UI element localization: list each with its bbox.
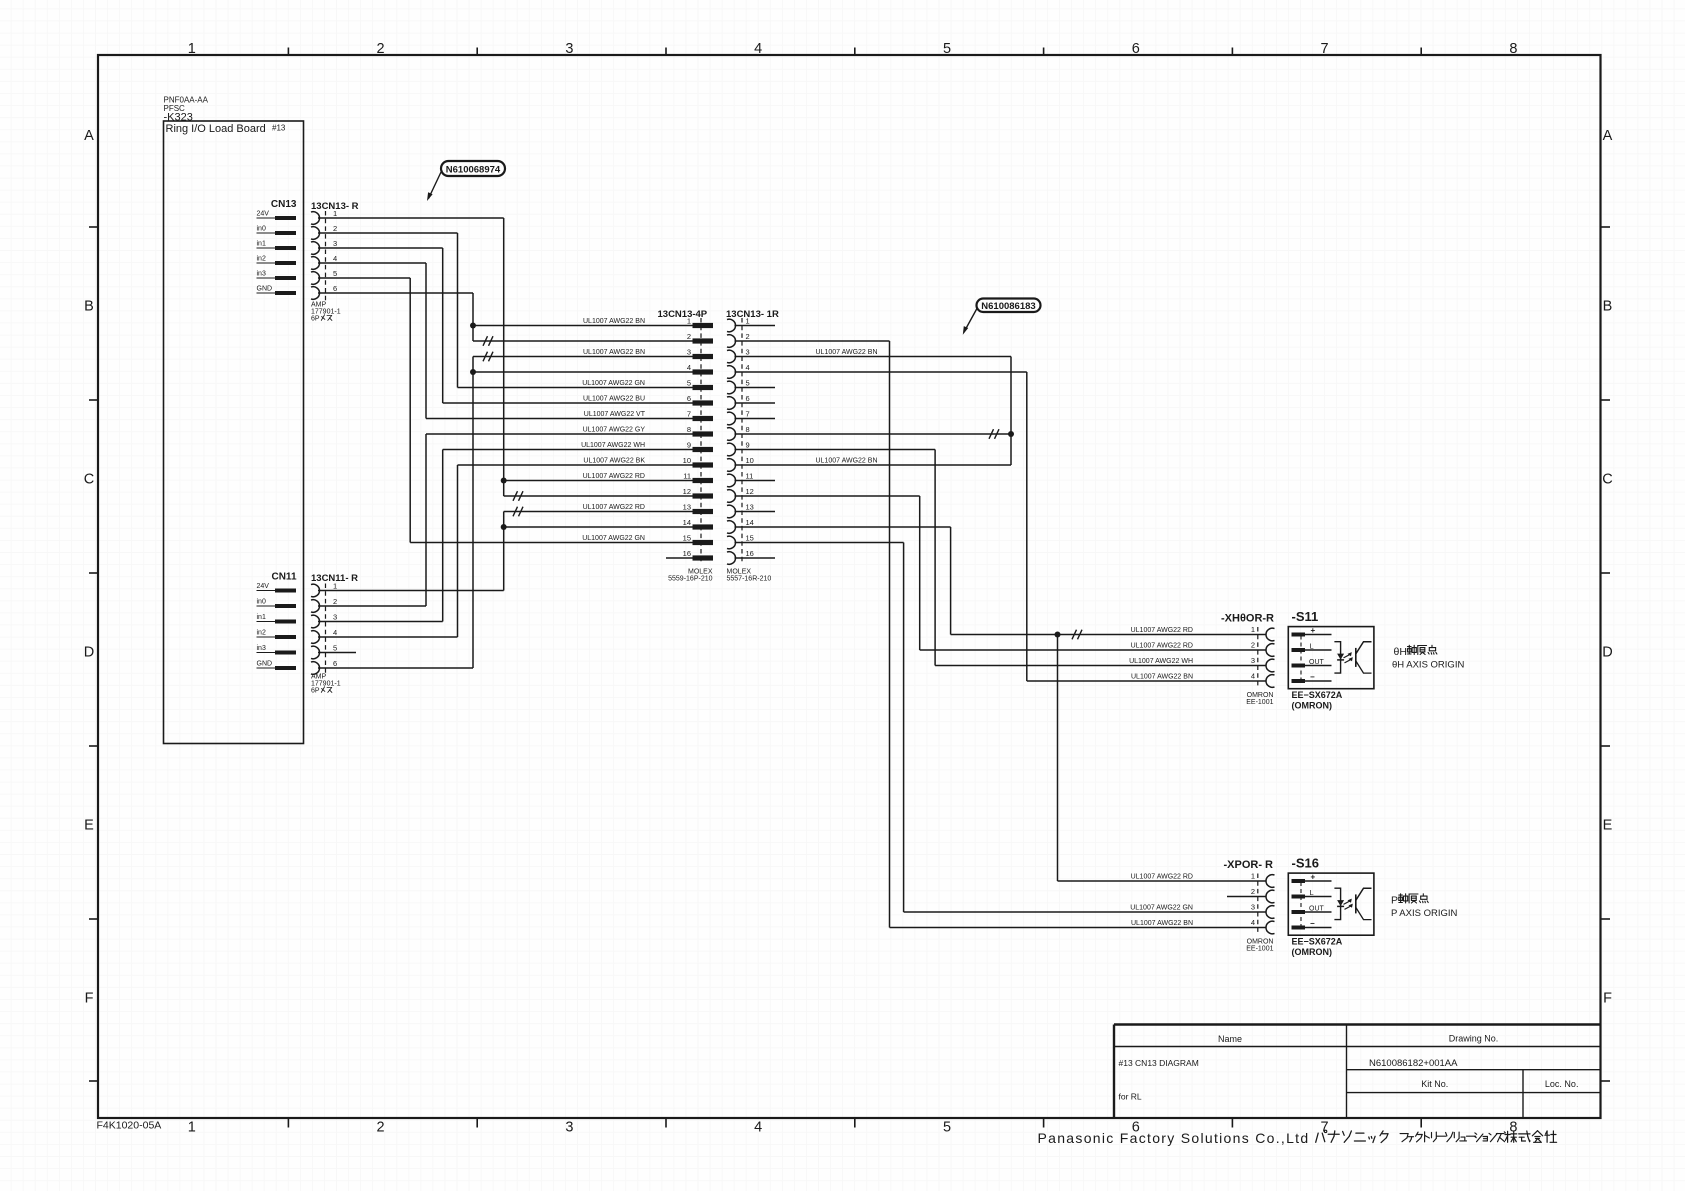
frame row tick marks right bbox=[1601, 227, 1611, 1081]
svg-text:5: 5 bbox=[943, 41, 951, 57]
svg-text:F: F bbox=[85, 991, 94, 1007]
svg-text:GND: GND bbox=[257, 661, 273, 668]
svg-text:24V: 24V bbox=[257, 583, 270, 590]
LED bracket of -S16 bbox=[1334, 888, 1340, 919]
svg-text:13: 13 bbox=[746, 503, 754, 512]
svg-text:(OMRON): (OMRON) bbox=[1292, 947, 1333, 957]
svg-text:in0: in0 bbox=[257, 599, 266, 606]
wire vertical CN13 24V net bbox=[503, 218, 505, 496]
wire vertical 1R p9 to S11 OUT bbox=[934, 450, 936, 666]
svg-text:in2: in2 bbox=[257, 256, 266, 263]
svg-text:1: 1 bbox=[1251, 872, 1255, 881]
wire feed to 13CN13-4P pin 11 bbox=[504, 480, 693, 482]
pin 12 socket of 13CN13-1R bbox=[727, 490, 736, 503]
wire 13CN13-1R pin 6 lead bbox=[735, 402, 776, 404]
svg-text:6: 6 bbox=[333, 659, 337, 668]
svg-text:UL1007 AWG22 RD: UL1007 AWG22 RD bbox=[583, 473, 645, 480]
pin 14 socket of 13CN13-1R bbox=[727, 521, 736, 534]
svg-text:12: 12 bbox=[746, 487, 754, 496]
svg-text:5: 5 bbox=[943, 1120, 951, 1136]
svg-text:θH: θH bbox=[1394, 646, 1407, 658]
svg-text:10: 10 bbox=[746, 456, 754, 465]
connector 13CN11-R body dashed line bbox=[325, 584, 327, 676]
wire 13CN11-R p5 stub bbox=[318, 652, 356, 654]
connector 13CN13-4P body dashed line bbox=[700, 318, 702, 562]
svg-text:UL1007 AWG22 GN: UL1007 AWG22 GN bbox=[1130, 905, 1193, 912]
svg-text:EE-1001: EE-1001 bbox=[1246, 946, 1273, 953]
wire feed to 13CN13-4P pin 6 bbox=[443, 402, 693, 404]
svg-text:1: 1 bbox=[746, 317, 750, 326]
part number balloon N610068974 bbox=[441, 161, 505, 176]
svg-text:6: 6 bbox=[1132, 41, 1140, 57]
svg-text:7: 7 bbox=[1321, 41, 1329, 57]
wire feed to 13CN13-4P pin 13 bbox=[504, 511, 693, 513]
svg-text:7: 7 bbox=[746, 410, 750, 419]
connector 13CN13-1R body dashed line bbox=[741, 318, 743, 562]
pin 4 socket of 13CN13-1R bbox=[727, 366, 736, 379]
wire 13CN11-R p3 horizontal bbox=[318, 621, 443, 623]
wire vertical CN13 p3 net bbox=[442, 248, 444, 403]
svg-text:N610086182+001AA: N610086182+001AA bbox=[1369, 1058, 1458, 1069]
svg-text:14: 14 bbox=[746, 518, 754, 527]
svg-text:OUT: OUT bbox=[1309, 906, 1325, 913]
svg-text:6P: 6P bbox=[311, 316, 320, 323]
part number balloon N610086183 bbox=[977, 299, 1041, 313]
pin 1 socket of 13CN13-R bbox=[311, 212, 320, 225]
svg-text:9: 9 bbox=[687, 441, 691, 450]
wire 13CN13-1R pin 8 lead bbox=[735, 433, 1012, 435]
svg-text:6P: 6P bbox=[311, 688, 320, 695]
pin 3 bar inside -S16 bbox=[1292, 910, 1306, 914]
wire 13CN13-1R pin 4 lead bbox=[735, 371, 1027, 373]
grid row letters left bbox=[84, 128, 94, 1007]
wire feed to 13CN13-4P pin 1 bbox=[473, 325, 693, 327]
svg-text:5: 5 bbox=[333, 644, 337, 653]
svg-text:8: 8 bbox=[746, 425, 750, 434]
wire 13CN13-1R pin 9 lead bbox=[735, 449, 936, 451]
svg-text:5: 5 bbox=[687, 379, 691, 388]
dashed line inside -S16 bbox=[1300, 882, 1302, 929]
svg-text:B: B bbox=[1603, 299, 1613, 315]
wire 13CN13-1R pin 14 lead bbox=[735, 526, 951, 528]
svg-text:-XPOR- R: -XPOR- R bbox=[1224, 859, 1274, 871]
wire 13CN11-R p6 GND horizontal bbox=[318, 667, 473, 669]
svg-text:4: 4 bbox=[333, 254, 337, 263]
wire vertical CN13 p4 net bbox=[425, 263, 427, 419]
svg-text:11: 11 bbox=[683, 472, 691, 481]
svg-text:4: 4 bbox=[1251, 918, 1255, 927]
wire feed to 13CN13-4P pin 2 bbox=[473, 340, 693, 342]
svg-text:24V: 24V bbox=[257, 211, 270, 218]
wire 13CN11-R p4 horizontal bbox=[318, 636, 458, 638]
junction GND to 4P p1 bbox=[470, 323, 476, 329]
svg-text:6: 6 bbox=[687, 394, 691, 403]
wire 13CN13-1R pin 7 lead bbox=[735, 418, 776, 420]
svg-text:1: 1 bbox=[333, 209, 337, 218]
dashed line inside -S11 bbox=[1300, 636, 1302, 683]
title block table bbox=[1114, 1025, 1601, 1119]
wire 13CN13-1R pin 13 lead bbox=[735, 511, 776, 513]
pin 2 bar inside -S16 bbox=[1292, 895, 1306, 899]
svg-text:UL1007 AWG22 RD: UL1007 AWG22 RD bbox=[583, 504, 645, 511]
svg-text:Ring I/O Load Board: Ring I/O Load Board bbox=[166, 123, 266, 135]
wire S16 connector pin4 minus bbox=[890, 927, 1267, 929]
pin 6 socket of 13CN11-R bbox=[311, 662, 320, 675]
twist mark on 4P p12 wire bbox=[513, 491, 523, 501]
svg-text:16: 16 bbox=[746, 549, 754, 558]
svg-text:C: C bbox=[84, 472, 94, 488]
connector -XHθOR-R dashed line bbox=[1257, 627, 1259, 687]
svg-text:UL1007 AWG22 BN: UL1007 AWG22 BN bbox=[583, 349, 645, 356]
svg-text:in2: in2 bbox=[257, 630, 266, 637]
wire feed to 13CN13-4P pin 15 bbox=[410, 542, 692, 544]
wire feed to 13CN13-4P pin 10 bbox=[458, 464, 693, 466]
LED diode of -S16 bbox=[1337, 900, 1344, 906]
frame row tick marks left bbox=[89, 227, 98, 1081]
light arrows of -S16 bbox=[1344, 900, 1353, 909]
svg-text:E: E bbox=[84, 818, 94, 834]
svg-text:N610068974: N610068974 bbox=[446, 165, 501, 176]
wire 13CN13-R p4 horizontal bbox=[318, 262, 426, 264]
svg-text:3: 3 bbox=[746, 348, 750, 357]
LED bracket of -S11 bbox=[1334, 642, 1340, 673]
wire S11 connector pin4 minus bbox=[1027, 680, 1266, 682]
svg-text:UL1007 AWG22 BN: UL1007 AWG22 BN bbox=[816, 349, 878, 356]
svg-text:N610086183: N610086183 bbox=[981, 301, 1035, 312]
svg-text:16: 16 bbox=[683, 549, 691, 558]
grid column numbers top bbox=[188, 41, 1518, 57]
twist mark on 4P p3 wire bbox=[483, 352, 493, 362]
svg-text:-S16: -S16 bbox=[1292, 856, 1319, 871]
svg-text:UL1007 AWG22 BN: UL1007 AWG22 BN bbox=[583, 318, 645, 325]
svg-text:E: E bbox=[1603, 818, 1613, 834]
svg-text:UL1007 AWG22 RD: UL1007 AWG22 RD bbox=[1131, 874, 1193, 881]
svg-text:13CN13-4P: 13CN13-4P bbox=[658, 309, 708, 320]
wire 13CN13-1R pin 16 lead bbox=[735, 557, 776, 559]
pin 5 socket of 13CN13-1R bbox=[727, 381, 736, 394]
svg-text:CN13: CN13 bbox=[271, 199, 297, 210]
pin 4 socket of 13CN11-R bbox=[311, 631, 320, 644]
twist mark on 4P p13 wire bbox=[513, 507, 523, 517]
pin 10 socket of 13CN13-1R bbox=[727, 459, 736, 472]
photo sensor -S16 EE-SX672A bbox=[1288, 873, 1374, 935]
svg-text:in3: in3 bbox=[257, 645, 266, 652]
junction 24V to 4P p11 bbox=[501, 478, 507, 484]
svg-text:CN11: CN11 bbox=[271, 572, 296, 583]
pin 4 bar inside -S16 bbox=[1292, 926, 1306, 930]
wire 13CN11-R p1 to vertical 24V bbox=[318, 590, 504, 592]
svg-text:F: F bbox=[1603, 991, 1612, 1007]
junction 24V to 4P p14 bbox=[501, 524, 507, 530]
pin 1 bar inside -S16 bbox=[1292, 879, 1306, 883]
svg-text:UL1007 AWG22 BN: UL1007 AWG22 BN bbox=[1131, 920, 1193, 927]
wire 13CN13-1R pin 2 lead bbox=[735, 340, 890, 342]
svg-text:L: L bbox=[1310, 888, 1314, 897]
wire feed to 13CN13-4P pin 16 bbox=[666, 557, 693, 559]
svg-text:14: 14 bbox=[683, 518, 691, 527]
svg-text:3: 3 bbox=[565, 1120, 573, 1136]
svg-text:MOLEX: MOLEX bbox=[727, 569, 752, 576]
wire 13CN13-1R pin 3 lead bbox=[735, 356, 1012, 358]
svg-text:#13: #13 bbox=[272, 124, 286, 133]
svg-text:5559-16P-210: 5559-16P-210 bbox=[668, 576, 712, 583]
svg-text:θH AXIS ORIGIN: θH AXIS ORIGIN bbox=[1392, 660, 1464, 671]
svg-text:UL1007 AWG22 GY: UL1007 AWG22 GY bbox=[583, 427, 646, 434]
junction 1R p8 on loop bbox=[1008, 431, 1014, 437]
frame column tick marks bottom bbox=[288, 1118, 1421, 1128]
svg-text:4: 4 bbox=[746, 363, 750, 372]
svg-text:2: 2 bbox=[377, 1120, 385, 1136]
svg-text:4: 4 bbox=[687, 363, 691, 372]
pin 3 socket of 13CN11-R bbox=[311, 615, 320, 628]
svg-text:(OMRON): (OMRON) bbox=[1292, 701, 1333, 711]
pin 7 socket of 13CN13-1R bbox=[727, 412, 736, 425]
svg-text:-K323: -K323 bbox=[164, 112, 193, 124]
wire feed to 13CN13-4P pin 12 bbox=[504, 495, 693, 497]
wire feed to 13CN13-4P pin 5 bbox=[458, 387, 693, 389]
pin 1 bar inside -S11 bbox=[1292, 633, 1306, 637]
wire vertical 1R p15 to S16 OUT bbox=[903, 543, 905, 913]
svg-text:Name: Name bbox=[1218, 1034, 1242, 1044]
wire 13CN13-1R pin 10 lead bbox=[735, 464, 1012, 466]
pin 9 socket of 13CN13-1R bbox=[727, 443, 736, 456]
svg-text:C: C bbox=[1602, 472, 1612, 488]
wire 13CN13-R p2 horizontal bbox=[318, 232, 458, 234]
svg-text:3: 3 bbox=[687, 348, 691, 357]
svg-text:11: 11 bbox=[746, 472, 754, 481]
svg-text:AMP: AMP bbox=[311, 302, 327, 309]
svg-text:UL1007 AWG22 BU: UL1007 AWG22 BU bbox=[583, 396, 645, 403]
svg-text:5: 5 bbox=[333, 269, 337, 278]
svg-text:UL1007 AWG22 RD: UL1007 AWG22 RD bbox=[1131, 627, 1193, 634]
svg-text:15: 15 bbox=[683, 534, 691, 543]
wire 13CN13-1R pin 1 lead bbox=[735, 325, 776, 327]
svg-text:8: 8 bbox=[687, 425, 691, 434]
wire 13CN13-1R pin 11 lead bbox=[735, 480, 776, 482]
svg-text:4: 4 bbox=[1251, 672, 1255, 681]
svg-text:-S11: -S11 bbox=[1292, 609, 1319, 624]
svg-text:AMP: AMP bbox=[311, 674, 327, 681]
svg-text:9: 9 bbox=[746, 441, 750, 450]
wire vertical 1R p2 to S16 minus bbox=[889, 341, 891, 928]
pin 5 socket of 13CN13-R bbox=[311, 272, 320, 285]
svg-text:10: 10 bbox=[683, 456, 691, 465]
wire vertical 1R p14 to S11 plus bbox=[950, 527, 952, 635]
svg-text:MOLEX: MOLEX bbox=[688, 569, 713, 576]
svg-text:OMRON: OMRON bbox=[1247, 692, 1274, 699]
pin 1 socket of 13CN13-1R bbox=[727, 319, 736, 332]
grid column numbers bottom bbox=[188, 1120, 1518, 1136]
connector 13CN13-R body dashed line bbox=[325, 211, 327, 301]
svg-text:P: P bbox=[1391, 895, 1398, 907]
svg-text:A: A bbox=[84, 128, 94, 144]
svg-text:4: 4 bbox=[333, 628, 337, 637]
frame column tick marks top bbox=[288, 48, 1421, 56]
svg-text:in1: in1 bbox=[257, 241, 266, 248]
svg-text:for RL: for RL bbox=[1119, 1092, 1142, 1102]
wire 13CN11-R p2 horizontal bbox=[318, 605, 426, 607]
svg-text:4: 4 bbox=[754, 1120, 762, 1136]
wire vertical 1R p4 to S11 minus bbox=[1026, 372, 1028, 681]
wire 13CN13-1R pin 5 lead bbox=[735, 387, 776, 389]
pin 16 socket of 13CN13-1R bbox=[727, 552, 736, 565]
phototransistor of -S16 bbox=[1355, 894, 1357, 913]
pin 11 socket of 13CN13-1R bbox=[727, 474, 736, 487]
svg-text:−: − bbox=[1310, 673, 1315, 682]
wire 13CN13-R p5 horizontal bbox=[318, 277, 410, 279]
pin 8 socket of 13CN13-1R bbox=[727, 428, 736, 441]
pin 1 socket of 13CN11-R bbox=[311, 584, 320, 597]
pin 6 socket of 13CN13-1R bbox=[727, 397, 736, 410]
svg-text:2: 2 bbox=[333, 597, 337, 606]
svg-text:1: 1 bbox=[188, 1120, 196, 1136]
svg-text:2: 2 bbox=[746, 332, 750, 341]
wire S16 connector pin1 plus 24V bbox=[1058, 880, 1267, 882]
LED diode of -S11 bbox=[1337, 654, 1344, 660]
svg-text:+: + bbox=[1311, 626, 1316, 635]
svg-text:177901-1: 177901-1 bbox=[311, 681, 341, 688]
svg-text:3: 3 bbox=[1251, 903, 1255, 912]
twist mark on S11 plus wire bbox=[1072, 630, 1082, 640]
svg-text:Loc. No.: Loc. No. bbox=[1545, 1079, 1579, 1089]
wire feed to 13CN13-4P pin 14 bbox=[504, 526, 693, 528]
svg-text:in0: in0 bbox=[257, 226, 266, 233]
wire vertical CN11 GND net bbox=[472, 357, 474, 669]
svg-text:UL1007 AWG22 WH: UL1007 AWG22 WH bbox=[581, 442, 645, 449]
svg-text:Kit No.: Kit No. bbox=[1421, 1079, 1448, 1089]
svg-text:1: 1 bbox=[333, 582, 337, 591]
pin 3 socket of 13CN13-R bbox=[311, 242, 320, 255]
svg-text:Drawing No.: Drawing No. bbox=[1449, 1034, 1499, 1044]
svg-text:#13 CN13 DIAGRAM: #13 CN13 DIAGRAM bbox=[1119, 1058, 1199, 1068]
pin 2 socket of 13CN13-1R bbox=[727, 335, 736, 348]
svg-text:2: 2 bbox=[687, 332, 691, 341]
svg-text:13CN13- 1R: 13CN13- 1R bbox=[726, 309, 779, 320]
svg-text:UL1007 AWG22 VT: UL1007 AWG22 VT bbox=[584, 411, 646, 418]
svg-text:P AXIS ORIGIN: P AXIS ORIGIN bbox=[1391, 908, 1457, 919]
wire vertical CN11 p3 net bbox=[442, 450, 444, 622]
svg-text:12: 12 bbox=[683, 487, 691, 496]
svg-text:+: + bbox=[1311, 873, 1316, 882]
svg-text:UL1007 AWG22 BK: UL1007 AWG22 BK bbox=[583, 458, 645, 465]
svg-text:UL1007 AWG22 GN: UL1007 AWG22 GN bbox=[582, 535, 645, 542]
wire feed to 13CN13-4P pin 3 bbox=[473, 356, 693, 358]
svg-text:D: D bbox=[84, 645, 94, 661]
wire feed to 13CN13-4P pin 9 bbox=[443, 449, 693, 451]
svg-text:UL1007 AWG22 GN: UL1007 AWG22 GN bbox=[582, 380, 645, 387]
wire 13CN13-R p3 horizontal bbox=[318, 247, 443, 249]
svg-text:EE−SX672A: EE−SX672A bbox=[1292, 937, 1343, 947]
pin 6 socket of 13CN13-R bbox=[311, 287, 320, 300]
wire S11 connector pin1 plus 24V bbox=[951, 634, 1266, 636]
wire vertical 1R p12 to S11 L bbox=[919, 496, 921, 650]
wire feed to 13CN13-4P pin 7 bbox=[426, 418, 693, 420]
junction S11 plus branch bbox=[1055, 632, 1061, 638]
pin 3 bar inside -S11 bbox=[1292, 664, 1306, 668]
pin 5 socket of 13CN11-R bbox=[311, 646, 320, 659]
svg-text:UL1007 AWG22 BN: UL1007 AWG22 BN bbox=[816, 458, 878, 465]
wire vertical CN13 p2 net bbox=[457, 233, 459, 388]
svg-text:2: 2 bbox=[377, 41, 385, 57]
pin 2 bar inside -S11 bbox=[1292, 648, 1306, 652]
svg-text:in3: in3 bbox=[257, 271, 266, 278]
wire vertical CN13 GND net bbox=[472, 293, 474, 341]
twist mark on 1R p8 wire bbox=[989, 429, 999, 439]
twist mark on 4P p2 wire bbox=[483, 336, 493, 346]
wire 13CN13-R p6 GND horizontal bbox=[318, 292, 473, 294]
svg-text:13: 13 bbox=[683, 503, 691, 512]
svg-text:6: 6 bbox=[746, 394, 750, 403]
wire feed to 13CN13-4P pin 4 bbox=[473, 371, 693, 373]
connector -XPOR- R dashed line bbox=[1257, 874, 1259, 934]
svg-text:Panasonic Factory Solutions Co: Panasonic Factory Solutions Co.,Ltd bbox=[1038, 1130, 1310, 1146]
wire 13CN13-1R pin 15 lead bbox=[735, 542, 904, 544]
svg-text:B: B bbox=[84, 299, 94, 315]
svg-text:EE-1001: EE-1001 bbox=[1246, 699, 1273, 706]
wire S16 connector pin2 stub bbox=[1227, 896, 1266, 898]
svg-text:5: 5 bbox=[746, 379, 750, 388]
svg-text:−: − bbox=[1310, 919, 1315, 928]
svg-text:OUT: OUT bbox=[1309, 659, 1325, 666]
svg-text:UL1007 AWG22 WH: UL1007 AWG22 WH bbox=[1129, 658, 1193, 665]
pin 4 bar inside -S11 bbox=[1292, 679, 1306, 683]
svg-text:7: 7 bbox=[687, 410, 691, 419]
connector -XHθOR-R bbox=[1221, 613, 1274, 625]
svg-text:3: 3 bbox=[333, 613, 337, 622]
svg-text:8: 8 bbox=[1509, 41, 1517, 57]
wire S11 connector pin3 OUT bbox=[935, 665, 1266, 667]
pin 2 socket of 13CN11-R bbox=[311, 600, 320, 613]
svg-text:2: 2 bbox=[1251, 887, 1255, 896]
grid row letters right bbox=[1602, 128, 1612, 1007]
wire vertical CN11 p2 net bbox=[425, 434, 427, 606]
svg-text:OMRON: OMRON bbox=[1247, 939, 1274, 946]
light arrows of -S11 bbox=[1344, 654, 1353, 663]
svg-text:2: 2 bbox=[1251, 641, 1255, 650]
svg-text:177901-1: 177901-1 bbox=[311, 309, 341, 316]
wire vertical 1R p3-p8-p10 loop bbox=[1010, 357, 1012, 466]
svg-text:6: 6 bbox=[333, 284, 337, 293]
svg-text:2: 2 bbox=[333, 224, 337, 233]
drawing frame border bbox=[98, 55, 1601, 1118]
junction GND to 4P p4 bbox=[470, 369, 476, 375]
photo sensor -S11 EE-SX672A bbox=[1288, 627, 1374, 689]
wire vertical S11 plus to S16 plus bbox=[1057, 635, 1059, 882]
wire vertical CN13 p5 net bbox=[409, 278, 411, 543]
svg-text:UL1007 AWG22 RD: UL1007 AWG22 RD bbox=[1131, 643, 1193, 650]
svg-text:in1: in1 bbox=[257, 614, 266, 621]
svg-text:3: 3 bbox=[333, 239, 337, 248]
phototransistor of -S11 bbox=[1355, 648, 1357, 667]
svg-text:L: L bbox=[1310, 642, 1314, 651]
wire S11 connector pin2 L bbox=[920, 649, 1266, 651]
pin 4 socket of 13CN13-R bbox=[311, 257, 320, 270]
board K323 Ring I/O Load Board bbox=[164, 121, 304, 744]
pin 13 socket of 13CN13-1R bbox=[727, 505, 736, 518]
wire vertical CN11 24V net bbox=[503, 512, 505, 591]
wire vertical CN11 p4 net bbox=[457, 465, 459, 637]
wire 13CN13-R p1 to vertical 24V bbox=[318, 217, 504, 219]
svg-text:1: 1 bbox=[188, 41, 196, 57]
svg-text:4: 4 bbox=[754, 41, 762, 57]
svg-text:1: 1 bbox=[687, 317, 691, 326]
svg-text:GND: GND bbox=[257, 286, 273, 293]
wire feed to 13CN13-4P pin 8 bbox=[426, 433, 693, 435]
svg-text:-XHθOR-R: -XHθOR-R bbox=[1221, 613, 1274, 625]
svg-text:5557-16R-210: 5557-16R-210 bbox=[727, 576, 772, 583]
svg-text:15: 15 bbox=[746, 534, 754, 543]
wire S16 connector pin3 OUT bbox=[904, 911, 1266, 913]
